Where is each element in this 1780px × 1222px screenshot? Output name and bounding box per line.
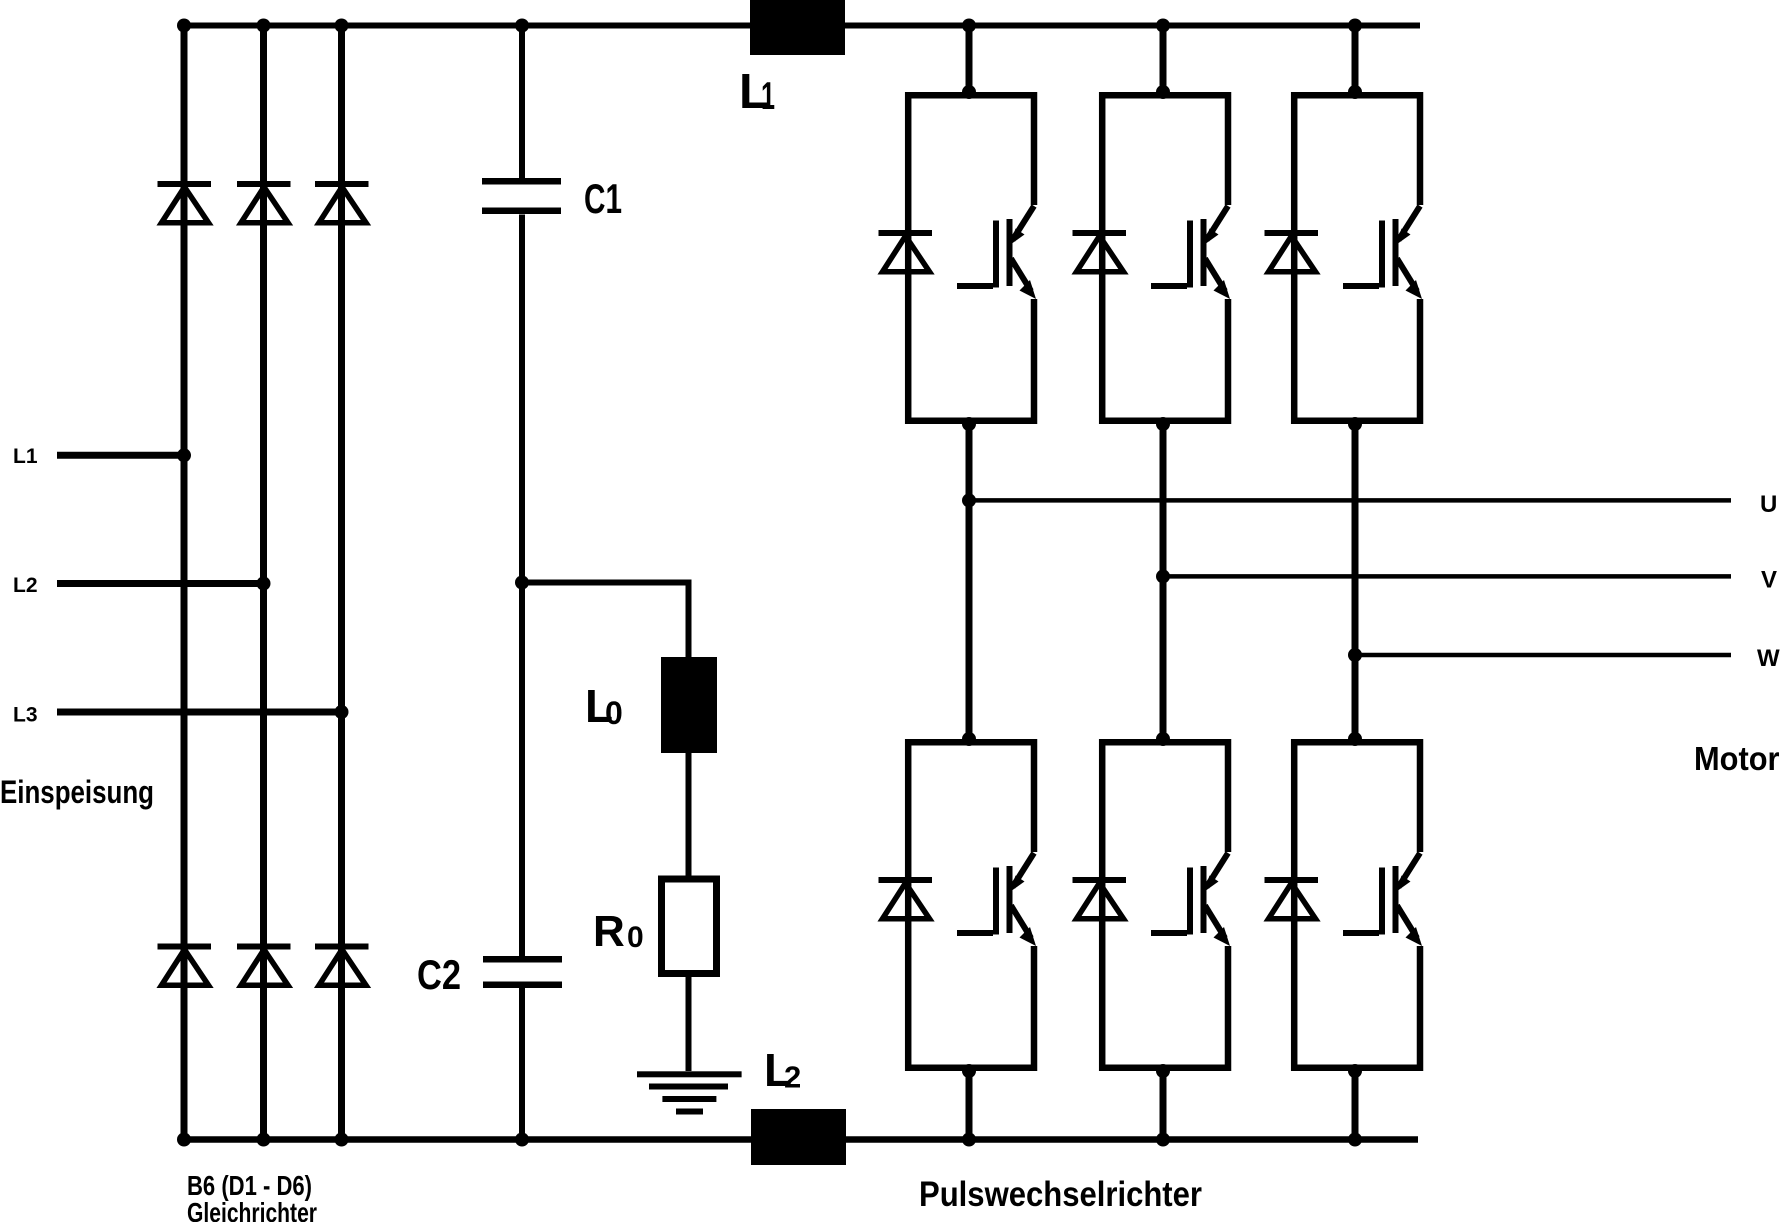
wire leg1 phase U segment xyxy=(966,424,973,741)
wire rectifier branch D1/D4 xyxy=(181,26,188,1140)
svg-text:R: R xyxy=(593,907,625,956)
svg-text:W: W xyxy=(1757,645,1780,672)
transistor cell V1 (IGBT + freewheel diode, leg1 top) xyxy=(879,85,1037,431)
wire leg2 bottom stub xyxy=(1160,1069,1167,1140)
wire output V xyxy=(1163,574,1731,579)
junction node DC- / leg1 xyxy=(962,1133,976,1147)
wire R0 to ground xyxy=(686,974,692,1072)
wire bottom DC- bus xyxy=(181,1136,1418,1143)
wire leg3 bottom stub xyxy=(1352,1069,1359,1140)
svg-text:U: U xyxy=(1760,491,1777,518)
svg-text:Einspeisung: Einspeisung xyxy=(0,774,154,810)
inductor L0 xyxy=(661,657,717,753)
junction node DC+ / leg1 xyxy=(962,19,976,33)
wire L0 to R0 xyxy=(686,753,692,879)
wire tap to grounding network xyxy=(522,583,689,658)
junction node DC-link tap xyxy=(515,576,529,590)
label L1 choke xyxy=(739,65,775,119)
wire input L1 xyxy=(57,452,184,459)
svg-text:L3: L3 xyxy=(13,704,38,727)
svg-text:L1: L1 xyxy=(13,445,38,468)
junction node DC+ / leg2 xyxy=(1156,19,1170,33)
wire leg2 top stub xyxy=(1160,26,1167,93)
junction node DC- / D6 xyxy=(335,1133,349,1147)
transistor cell V4 (IGBT + freewheel diode, leg1 bottom) xyxy=(879,732,1037,1078)
wire output W xyxy=(1355,653,1731,658)
label L0 xyxy=(585,680,623,732)
resistor R0 xyxy=(662,879,717,974)
svg-text:Gleichrichter: Gleichrichter xyxy=(187,1197,317,1222)
wire leg2 phase V segment xyxy=(1160,424,1167,741)
svg-text:2: 2 xyxy=(784,1060,801,1095)
wire rectifier branch D3/D6 xyxy=(338,26,345,1140)
junction node input L3 xyxy=(335,705,349,719)
junction node DC- / leg3 xyxy=(1348,1133,1362,1147)
diode D4 xyxy=(158,944,212,986)
junction node DC+ / D1 xyxy=(177,19,191,33)
transistor cell V5 (IGBT + freewheel diode, leg2 bottom) xyxy=(1073,732,1231,1078)
wire leg3 top stub xyxy=(1352,26,1359,93)
junction node U xyxy=(962,493,976,507)
wire leg3 phase W segment xyxy=(1352,424,1359,741)
junction node DC+ / leg3 xyxy=(1348,19,1362,33)
wire input L2 xyxy=(57,580,264,587)
label L2 choke xyxy=(764,1044,801,1096)
junction node W xyxy=(1348,648,1362,662)
diode D1 xyxy=(158,181,212,223)
diode D2 xyxy=(237,181,291,223)
junction node V xyxy=(1156,569,1170,583)
wire output U xyxy=(969,498,1731,503)
diode D6 xyxy=(315,944,369,986)
diode D5 xyxy=(237,944,291,986)
junction node DC- / D5 xyxy=(257,1133,271,1147)
ground xyxy=(637,1071,742,1114)
svg-text:L2: L2 xyxy=(13,574,38,597)
junction node DC- / C2 xyxy=(515,1133,529,1147)
transistor cell V3 (IGBT + freewheel diode, leg3 top) xyxy=(1265,85,1423,431)
inductor L2 xyxy=(751,1109,846,1165)
svg-text:Motor: Motor xyxy=(1694,741,1780,778)
wire rectifier branch D2/D5 xyxy=(260,26,267,1140)
svg-text:C1: C1 xyxy=(584,175,622,222)
inductor L1 xyxy=(750,0,845,55)
svg-text:0: 0 xyxy=(605,695,623,731)
svg-text:1: 1 xyxy=(761,75,775,118)
wire DC-link column C1 to C2 xyxy=(519,215,525,957)
wire leg1 top stub xyxy=(966,26,973,93)
svg-text:C2: C2 xyxy=(417,951,461,998)
svg-text:0: 0 xyxy=(627,921,644,954)
wire DC-link column above C1 xyxy=(519,26,525,179)
svg-text:Pulswechselrichter: Pulswechselrichter xyxy=(919,1175,1202,1214)
svg-text:V: V xyxy=(1761,567,1777,594)
capacitor C1 xyxy=(482,178,561,214)
wire input L3 xyxy=(57,709,342,716)
wire leg1 bottom stub xyxy=(966,1069,973,1140)
wire top DC+ bus xyxy=(181,23,1420,29)
transistor cell V6 (IGBT + freewheel diode, leg3 bottom) xyxy=(1265,732,1423,1078)
junction node input L2 xyxy=(257,577,271,591)
capacitor C2 xyxy=(483,956,562,988)
label R0 xyxy=(593,907,644,956)
junction node DC+ / C1 xyxy=(515,19,529,33)
junction node DC- / leg2 xyxy=(1156,1133,1170,1147)
wire DC-link column below C2 xyxy=(519,988,525,1140)
junction node input L1 xyxy=(177,448,191,462)
diode D3 xyxy=(315,181,369,223)
junction node DC- / D4 xyxy=(177,1133,191,1147)
junction node DC+ / D2 xyxy=(257,19,271,33)
junction node DC+ / D3 xyxy=(335,19,349,33)
transistor cell V2 (IGBT + freewheel diode, leg2 top) xyxy=(1073,85,1231,431)
